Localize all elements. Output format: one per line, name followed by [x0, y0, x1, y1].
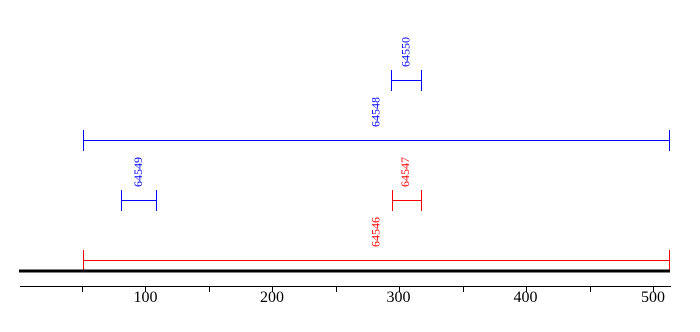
svg-text:64546: 64546 — [369, 217, 383, 247]
svg-text:300: 300 — [387, 289, 411, 306]
svg-text:64548: 64548 — [369, 97, 383, 127]
svg-text:64547: 64547 — [398, 157, 412, 187]
svg-text:500: 500 — [641, 289, 665, 306]
svg-text:64549: 64549 — [131, 157, 145, 187]
svg-text:400: 400 — [514, 289, 538, 306]
svg-text:200: 200 — [260, 289, 284, 306]
svg-text:64550: 64550 — [399, 37, 413, 67]
svg-text:100: 100 — [134, 289, 158, 306]
